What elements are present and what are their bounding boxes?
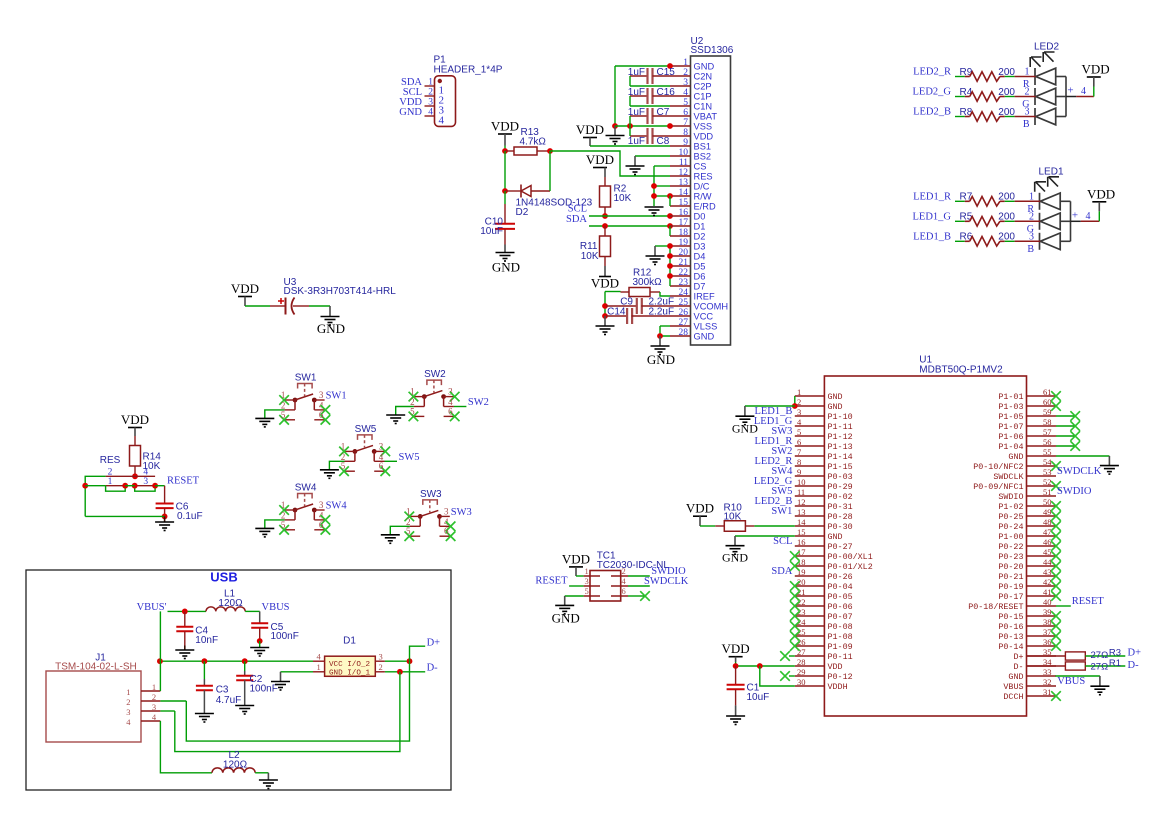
pin 27 VLSS of U2 bbox=[670, 325, 691, 327]
svg-text:17: 17 bbox=[679, 218, 689, 228]
svg-text:USB: USB bbox=[210, 570, 237, 585]
svg-text:D2: D2 bbox=[516, 207, 529, 218]
body verticals of SW5 bbox=[354, 451, 356, 461]
wire J1 pin1 to VBUS' rail bbox=[159, 611, 161, 691]
pin 6 of SW2 bbox=[444, 415, 454, 417]
capacitor C5 100nF bbox=[259, 611, 261, 623]
pin 61 P1-01 of U1 bbox=[1027, 395, 1057, 397]
svg-text:3: 3 bbox=[797, 407, 801, 417]
wire TC1 pin6 no-connect bbox=[628, 595, 644, 597]
pin 21 D5 of U2 bbox=[670, 265, 691, 267]
junction bbox=[612, 123, 618, 129]
svg-text:C8: C8 bbox=[657, 136, 670, 147]
svg-text:SW3: SW3 bbox=[420, 489, 442, 500]
svg-text:SWDIO: SWDIO bbox=[998, 492, 1023, 502]
svg-text:SSD1306: SSD1306 bbox=[691, 45, 734, 56]
svg-text:4: 4 bbox=[683, 88, 688, 98]
no-connect pin 54 bbox=[1051, 461, 1061, 471]
svg-text:D0: D0 bbox=[694, 212, 706, 222]
no-connect wire pin 59 bbox=[1056, 415, 1075, 417]
svg-text:1: 1 bbox=[281, 390, 286, 400]
pin 2 of SW5 bbox=[345, 460, 355, 462]
pin 38 P0-16 of U1 bbox=[1027, 625, 1057, 627]
svg-text:BS1: BS1 bbox=[694, 142, 712, 152]
no-connect wire pin 57 bbox=[1056, 435, 1075, 437]
svg-text:41: 41 bbox=[1043, 587, 1052, 597]
svg-text:GND: GND bbox=[828, 532, 843, 542]
capacitor C8 1uF bbox=[630, 135, 648, 137]
pin 59 P1-05 of U1 bbox=[1027, 415, 1057, 417]
svg-text:SDA: SDA bbox=[771, 566, 792, 577]
svg-text:2: 2 bbox=[683, 68, 688, 78]
no-connect pin 43 bbox=[1051, 571, 1061, 581]
svg-text:24: 24 bbox=[679, 288, 689, 298]
junction bbox=[202, 658, 208, 664]
no-connect pin 18 bbox=[790, 561, 800, 571]
svg-text:SDA: SDA bbox=[566, 214, 587, 225]
svg-text:VDD: VDD bbox=[1082, 62, 1110, 77]
capacitor C6 0.1uF bbox=[164, 486, 166, 504]
pin 28 VDD of U1 bbox=[795, 665, 825, 667]
ground at U3 bbox=[329, 306, 331, 317]
svg-text:VBUS: VBUS bbox=[1057, 676, 1085, 687]
svg-text:VBUS: VBUS bbox=[1003, 682, 1023, 692]
svg-text:GND: GND bbox=[399, 107, 422, 118]
resistor R3 27ohm bbox=[1027, 655, 1066, 657]
svg-text:P0-21: P0-21 bbox=[998, 572, 1023, 582]
wire pin4 of SW2 bbox=[454, 406, 467, 408]
ground at C3 bbox=[195, 713, 214, 715]
svg-text:29: 29 bbox=[797, 667, 806, 677]
pin 2 of TC1 bbox=[611, 575, 628, 577]
svg-text:SWDCLK: SWDCLK bbox=[993, 472, 1024, 482]
svg-text:10K: 10K bbox=[614, 193, 632, 204]
svg-text:D2: D2 bbox=[694, 232, 706, 242]
junction bbox=[733, 663, 739, 669]
junction bbox=[257, 638, 263, 644]
pin 12 RES of U2 bbox=[670, 175, 691, 177]
svg-text:D1: D1 bbox=[343, 636, 356, 647]
pin 2 of SW3 bbox=[410, 525, 420, 527]
junction bbox=[407, 658, 413, 664]
wire D3-D7 tie bbox=[655, 245, 670, 247]
pin 24 IREF of U2 bbox=[670, 295, 691, 297]
USB section frame bbox=[26, 570, 451, 790]
svg-text:GND: GND bbox=[492, 260, 520, 275]
svg-text:2: 2 bbox=[152, 692, 156, 702]
svg-text:1: 1 bbox=[428, 78, 433, 88]
pin 22 P0-06 of U1 bbox=[795, 605, 825, 607]
svg-text:P0-00/XL1: P0-00/XL1 bbox=[828, 552, 873, 562]
svg-text:6: 6 bbox=[683, 108, 688, 118]
no-connect pin 61 bbox=[1051, 391, 1061, 401]
wire D1-D2 tie bbox=[669, 226, 671, 236]
svg-text:VBUS: VBUS bbox=[262, 602, 290, 613]
ground at pin33 bbox=[1099, 676, 1101, 686]
svg-text:1: 1 bbox=[317, 662, 321, 672]
wire D2 to R13 out bbox=[549, 151, 551, 191]
wire TC1 pin5 to ground bbox=[565, 595, 584, 597]
svg-text:100nF: 100nF bbox=[271, 631, 299, 642]
pin 11 CS of U2 bbox=[670, 165, 691, 167]
svg-text:P0-03: P0-03 bbox=[828, 472, 853, 482]
svg-text:53: 53 bbox=[1043, 467, 1052, 477]
svg-text:1: 1 bbox=[341, 441, 346, 451]
svg-text:RESET: RESET bbox=[167, 475, 200, 486]
svg-text:P0-02: P0-02 bbox=[828, 492, 853, 502]
svg-text:VDD: VDD bbox=[828, 662, 843, 672]
svg-text:VBAT: VBAT bbox=[694, 112, 718, 122]
junction bbox=[397, 669, 403, 675]
pin 18 D2 of U2 bbox=[670, 235, 691, 237]
pin 4 of RES bbox=[135, 475, 155, 477]
svg-text:P0-16: P0-16 bbox=[998, 622, 1023, 632]
junction bbox=[651, 183, 657, 189]
capacitor C9 2.2uF bbox=[606, 305, 637, 307]
resistor R8 200 bbox=[955, 116, 965, 118]
wire RESET net bbox=[155, 485, 165, 487]
pin 3 of SW3 bbox=[440, 515, 450, 517]
pin 14 P0-30 of U1 bbox=[795, 525, 825, 527]
svg-text:15: 15 bbox=[797, 527, 806, 537]
pin 5 of SW1 bbox=[285, 419, 295, 421]
svg-text:51: 51 bbox=[1043, 487, 1052, 497]
wire RESET at U1 bbox=[1056, 605, 1071, 607]
junction bbox=[667, 223, 673, 229]
svg-text:P0-28: P0-28 bbox=[828, 512, 853, 522]
pin 3 of SW1 bbox=[314, 399, 324, 401]
wire R1 to D- bbox=[1085, 665, 1125, 667]
ground below C14 bbox=[604, 316, 606, 326]
pin 1 of SW4 bbox=[285, 509, 295, 511]
pin 14 R/W of U2 bbox=[670, 195, 691, 197]
svg-text:SW4: SW4 bbox=[326, 501, 348, 512]
svg-text:6: 6 bbox=[622, 586, 626, 596]
body verticals of SW1 bbox=[294, 400, 296, 410]
pin 7 VSS of U2 bbox=[670, 125, 691, 127]
pin 51 SWDIO of U1 bbox=[1027, 495, 1057, 497]
svg-text:D+: D+ bbox=[427, 637, 441, 648]
svg-text:VDD: VDD bbox=[576, 122, 604, 137]
svg-text:P0-27: P0-27 bbox=[828, 542, 853, 552]
svg-text:+: + bbox=[1072, 209, 1078, 221]
svg-text:R/W: R/W bbox=[694, 192, 712, 202]
svg-text:RESET: RESET bbox=[1072, 596, 1105, 607]
svg-text:VSS: VSS bbox=[694, 122, 713, 132]
pin 37 P0-13 of U1 bbox=[1027, 635, 1057, 637]
svg-text:3: 3 bbox=[319, 500, 324, 510]
pin 41 P0-17 of U1 bbox=[1027, 595, 1057, 597]
svg-text:28: 28 bbox=[797, 657, 806, 667]
svg-text:6: 6 bbox=[379, 461, 384, 471]
capacitor C3 4.7uF bbox=[203, 661, 205, 679]
pin 2 of SW2 bbox=[414, 406, 424, 408]
svg-text:MDBT50Q-P1MV2: MDBT50Q-P1MV2 bbox=[919, 365, 1003, 376]
svg-text:6: 6 bbox=[797, 437, 801, 447]
svg-text:SW5: SW5 bbox=[355, 424, 377, 435]
pin 17 D1 of U2 bbox=[670, 225, 691, 227]
pin 9 BS1 of U2 bbox=[670, 145, 691, 147]
ground at U1 top bbox=[744, 406, 746, 416]
svg-text:5: 5 bbox=[410, 406, 415, 416]
svg-text:16: 16 bbox=[797, 537, 806, 547]
svg-text:42: 42 bbox=[1043, 577, 1052, 587]
ground at pin15 bbox=[734, 536, 736, 546]
svg-text:D1: D1 bbox=[694, 222, 706, 232]
pin 3 P1-10 of U1 bbox=[795, 415, 825, 417]
wire L1 to VBUS bbox=[245, 610, 260, 612]
pin 11 P0-02 of U1 bbox=[795, 495, 825, 497]
svg-text:LED1: LED1 bbox=[1039, 166, 1064, 177]
wire VLSS to GND28 bbox=[660, 325, 670, 327]
bridge of RES bbox=[106, 486, 126, 492]
svg-text:28: 28 bbox=[679, 328, 689, 338]
svg-text:SW1: SW1 bbox=[295, 373, 317, 384]
pin 28 GND of U2 bbox=[670, 335, 691, 337]
inductor L1 120ohm bbox=[206, 607, 245, 612]
pin 4 of J1 bbox=[141, 720, 160, 722]
svg-text:D5: D5 bbox=[694, 262, 706, 272]
svg-text:P0-29: P0-29 bbox=[828, 482, 853, 492]
svg-text:P1-12: P1-12 bbox=[828, 432, 853, 442]
pin 2 of P1 bbox=[425, 95, 435, 97]
ground at C2 bbox=[235, 705, 254, 707]
svg-text:P1-11: P1-11 bbox=[828, 422, 853, 432]
svg-text:3: 3 bbox=[319, 390, 324, 400]
svg-text:P1-05: P1-05 bbox=[998, 412, 1023, 422]
svg-text:P0-11: P0-11 bbox=[828, 652, 853, 662]
wire pin2 of SW3 to ground bbox=[390, 526, 410, 535]
pin 60 P1-03 of U1 bbox=[1027, 405, 1057, 407]
svg-text:P0-23: P0-23 bbox=[998, 552, 1023, 562]
contacts of SW1 bbox=[293, 398, 298, 403]
svg-text:21: 21 bbox=[679, 258, 689, 268]
svg-text:RESET: RESET bbox=[535, 576, 568, 587]
pin 21 P0-05 of U1 bbox=[795, 595, 825, 597]
pin 25 P1-08 of U1 bbox=[795, 635, 825, 637]
svg-text:P0-08: P0-08 bbox=[828, 622, 853, 632]
no-connect pin 21 bbox=[790, 591, 800, 601]
pin 19 D3 of U2 bbox=[670, 245, 691, 247]
pin 1 GND of U2 bbox=[670, 65, 691, 67]
svg-text:P0-05: P0-05 bbox=[828, 592, 853, 602]
svg-text:GND: GND bbox=[647, 352, 675, 367]
svg-text:11: 11 bbox=[679, 158, 688, 168]
pin 4 of SW4 bbox=[314, 519, 324, 521]
ground at L2 bbox=[267, 773, 269, 780]
pin 5 of SW4 bbox=[285, 529, 295, 531]
pin 4 of LED1 bbox=[1071, 220, 1081, 222]
ground at U2 GND28 bbox=[659, 336, 661, 346]
no-connect pin 41 bbox=[1051, 591, 1061, 601]
no-connect wire pin 56 bbox=[1056, 445, 1075, 447]
svg-text:9: 9 bbox=[683, 138, 688, 148]
pin 4 of D1 bbox=[313, 660, 325, 662]
pin 56 P1-04 of U1 bbox=[1027, 445, 1057, 447]
svg-text:9: 9 bbox=[797, 467, 801, 477]
junction bbox=[667, 243, 673, 249]
pin 58 P1-07 of U1 bbox=[1027, 425, 1057, 427]
svg-text:VDD: VDD bbox=[591, 276, 619, 291]
resistor R5 200 bbox=[955, 220, 965, 222]
no-connect pin 26 bbox=[790, 641, 800, 651]
pin 3 of J1 bbox=[141, 710, 160, 712]
svg-text:31: 31 bbox=[1043, 687, 1052, 697]
wire L2 to ground bbox=[255, 772, 268, 774]
wire RES left loop bbox=[85, 476, 105, 516]
svg-text:IREF: IREF bbox=[694, 292, 715, 302]
svg-text:2: 2 bbox=[428, 88, 433, 98]
svg-text:20: 20 bbox=[679, 248, 689, 258]
svg-text:13: 13 bbox=[679, 178, 689, 188]
svg-text:6: 6 bbox=[319, 520, 324, 530]
pin 16 P0-27 of U1 bbox=[795, 545, 825, 547]
svg-text:5: 5 bbox=[797, 427, 801, 437]
svg-text:GND: GND bbox=[1008, 672, 1023, 682]
svg-text:12: 12 bbox=[797, 497, 806, 507]
svg-text:P0-20: P0-20 bbox=[998, 562, 1023, 572]
svg-text:VLSS: VLSS bbox=[694, 322, 718, 332]
svg-text:25: 25 bbox=[679, 298, 689, 308]
svg-text:56: 56 bbox=[1043, 437, 1052, 447]
pin 15 GND of U1 bbox=[795, 535, 825, 537]
wire VDD to U1 VDD pin bbox=[735, 662, 737, 666]
no-connect pin 60 bbox=[1051, 401, 1061, 411]
body verticals of SW4 bbox=[294, 510, 296, 520]
svg-text:VDD: VDD bbox=[491, 119, 519, 134]
svg-text:100nF: 100nF bbox=[250, 684, 278, 695]
svg-text:12: 12 bbox=[679, 168, 689, 178]
pin 2 C2N of U2 bbox=[670, 75, 691, 77]
junction bbox=[667, 273, 673, 279]
svg-text:33: 33 bbox=[1043, 667, 1052, 677]
svg-text:P1-03: P1-03 bbox=[998, 402, 1023, 412]
svg-text:37: 37 bbox=[1043, 627, 1052, 637]
svg-text:VCC I/O_2: VCC I/O_2 bbox=[329, 661, 370, 669]
svg-text:10uF: 10uF bbox=[747, 692, 770, 703]
svg-text:27Ω: 27Ω bbox=[1091, 662, 1109, 673]
no-connect pin 20 bbox=[790, 581, 800, 591]
ground at SW2 bbox=[386, 414, 405, 416]
ground at CS/D-C/R-W bbox=[645, 206, 664, 208]
pin 17 P0-00/XL1 of U1 bbox=[795, 555, 825, 557]
wire SDA to D1 bbox=[589, 225, 670, 227]
svg-text:5: 5 bbox=[341, 461, 346, 471]
svg-text:1: 1 bbox=[281, 500, 286, 510]
pin 2 of SW1 bbox=[285, 409, 295, 411]
svg-text:10K: 10K bbox=[724, 512, 742, 523]
svg-text:D-: D- bbox=[1128, 660, 1140, 671]
pin 1 of SW3 bbox=[410, 515, 420, 517]
resistor R2 10K bbox=[604, 177, 606, 186]
svg-text:3: 3 bbox=[444, 506, 449, 516]
svg-text:4: 4 bbox=[439, 115, 445, 127]
svg-text:3: 3 bbox=[585, 576, 589, 586]
svg-text:3: 3 bbox=[379, 651, 383, 661]
svg-text:C2N: C2N bbox=[694, 72, 713, 82]
svg-text:1: 1 bbox=[683, 58, 688, 68]
svg-text:SW1: SW1 bbox=[771, 506, 792, 517]
svg-text:GND: GND bbox=[722, 551, 748, 565]
no-connect wire pin 58 bbox=[1056, 425, 1075, 427]
svg-text:59: 59 bbox=[1043, 407, 1052, 417]
svg-text:E/RD: E/RD bbox=[694, 202, 716, 212]
svg-text:SW2: SW2 bbox=[468, 397, 489, 408]
resistor R10 10K bbox=[700, 525, 715, 527]
svg-text:VDD: VDD bbox=[694, 132, 714, 142]
inductor L2 120ohm bbox=[212, 768, 255, 773]
pin 1 of TC1 bbox=[584, 575, 600, 577]
svg-text:SWDCLK: SWDCLK bbox=[1057, 466, 1102, 477]
svg-text:D+: D+ bbox=[1128, 647, 1142, 658]
no-connect pin 48 bbox=[1051, 521, 1061, 531]
svg-text:1: 1 bbox=[126, 687, 130, 697]
svg-text:BS2: BS2 bbox=[694, 152, 712, 162]
wire VDD to TC1 pin1 bbox=[576, 575, 584, 577]
wire U1 GND pins 1-2 bbox=[794, 396, 796, 406]
ground at TC1 bbox=[564, 596, 566, 605]
junction bbox=[242, 658, 248, 664]
svg-text:P0-04: P0-04 bbox=[828, 582, 853, 592]
svg-text:SW4: SW4 bbox=[295, 483, 317, 494]
wire SCL to D0 bbox=[589, 215, 670, 217]
svg-text:D3: D3 bbox=[694, 242, 706, 252]
pin 2 of RES bbox=[106, 475, 135, 477]
contacts of SW2 bbox=[422, 394, 427, 399]
svg-text:2: 2 bbox=[622, 566, 626, 576]
pin 27 P0-11 of U1 bbox=[795, 655, 825, 657]
pin 6 of SW3 bbox=[440, 535, 450, 537]
svg-text:P1-13: P1-13 bbox=[828, 442, 853, 452]
emission arrows of LED1 bbox=[1035, 182, 1046, 192]
no-connect pin 37 bbox=[1051, 631, 1061, 641]
pin 5 of SW2 bbox=[414, 415, 424, 417]
svg-text:VBUS': VBUS' bbox=[137, 602, 167, 613]
svg-text:4.7uF: 4.7uF bbox=[216, 695, 242, 706]
pin 19 P0-26 of U1 bbox=[795, 575, 825, 577]
svg-text:27: 27 bbox=[679, 318, 689, 328]
pin 4 of SW3 bbox=[440, 525, 450, 527]
pin 3 C2P of U2 bbox=[670, 85, 691, 87]
svg-text:1uF: 1uF bbox=[628, 136, 645, 147]
pin 53 SWDCLK of U1 bbox=[1027, 475, 1057, 477]
wire VBUS' to L1 bbox=[168, 610, 207, 612]
pin 55 GND of U1 bbox=[1027, 455, 1057, 457]
pin 52 P0-09/NFC1 of U1 bbox=[1027, 485, 1057, 487]
pin 26 P1-09 of U1 bbox=[795, 645, 825, 647]
svg-text:DSK-3R3H703T414-HRL: DSK-3R3H703T414-HRL bbox=[284, 286, 397, 297]
pin 3 of TC1 bbox=[584, 585, 600, 587]
ground at SW3 bbox=[381, 534, 400, 536]
svg-text:30: 30 bbox=[797, 677, 806, 687]
svg-text:C16: C16 bbox=[657, 87, 676, 98]
wire pin2 of SW5 to ground bbox=[329, 461, 344, 470]
pin 3 of SW4 bbox=[314, 509, 324, 511]
svg-text:D-: D- bbox=[427, 663, 439, 674]
junction bbox=[547, 148, 553, 154]
pin 22 D6 of U2 bbox=[670, 275, 691, 277]
resistor R4 200 bbox=[955, 96, 965, 98]
svg-text:P1-09: P1-09 bbox=[828, 642, 853, 652]
svg-text:GND: GND bbox=[317, 321, 345, 336]
no-connect pin 38 bbox=[1051, 621, 1061, 631]
svg-text:27Ω: 27Ω bbox=[1091, 650, 1109, 661]
svg-text:4: 4 bbox=[1081, 86, 1086, 97]
ground at SW5 bbox=[320, 469, 339, 471]
pin 12 P0-31 of U1 bbox=[795, 505, 825, 507]
no-connect pin 29 bbox=[789, 675, 795, 677]
pin 49 P0-25 of U1 bbox=[1027, 515, 1057, 517]
